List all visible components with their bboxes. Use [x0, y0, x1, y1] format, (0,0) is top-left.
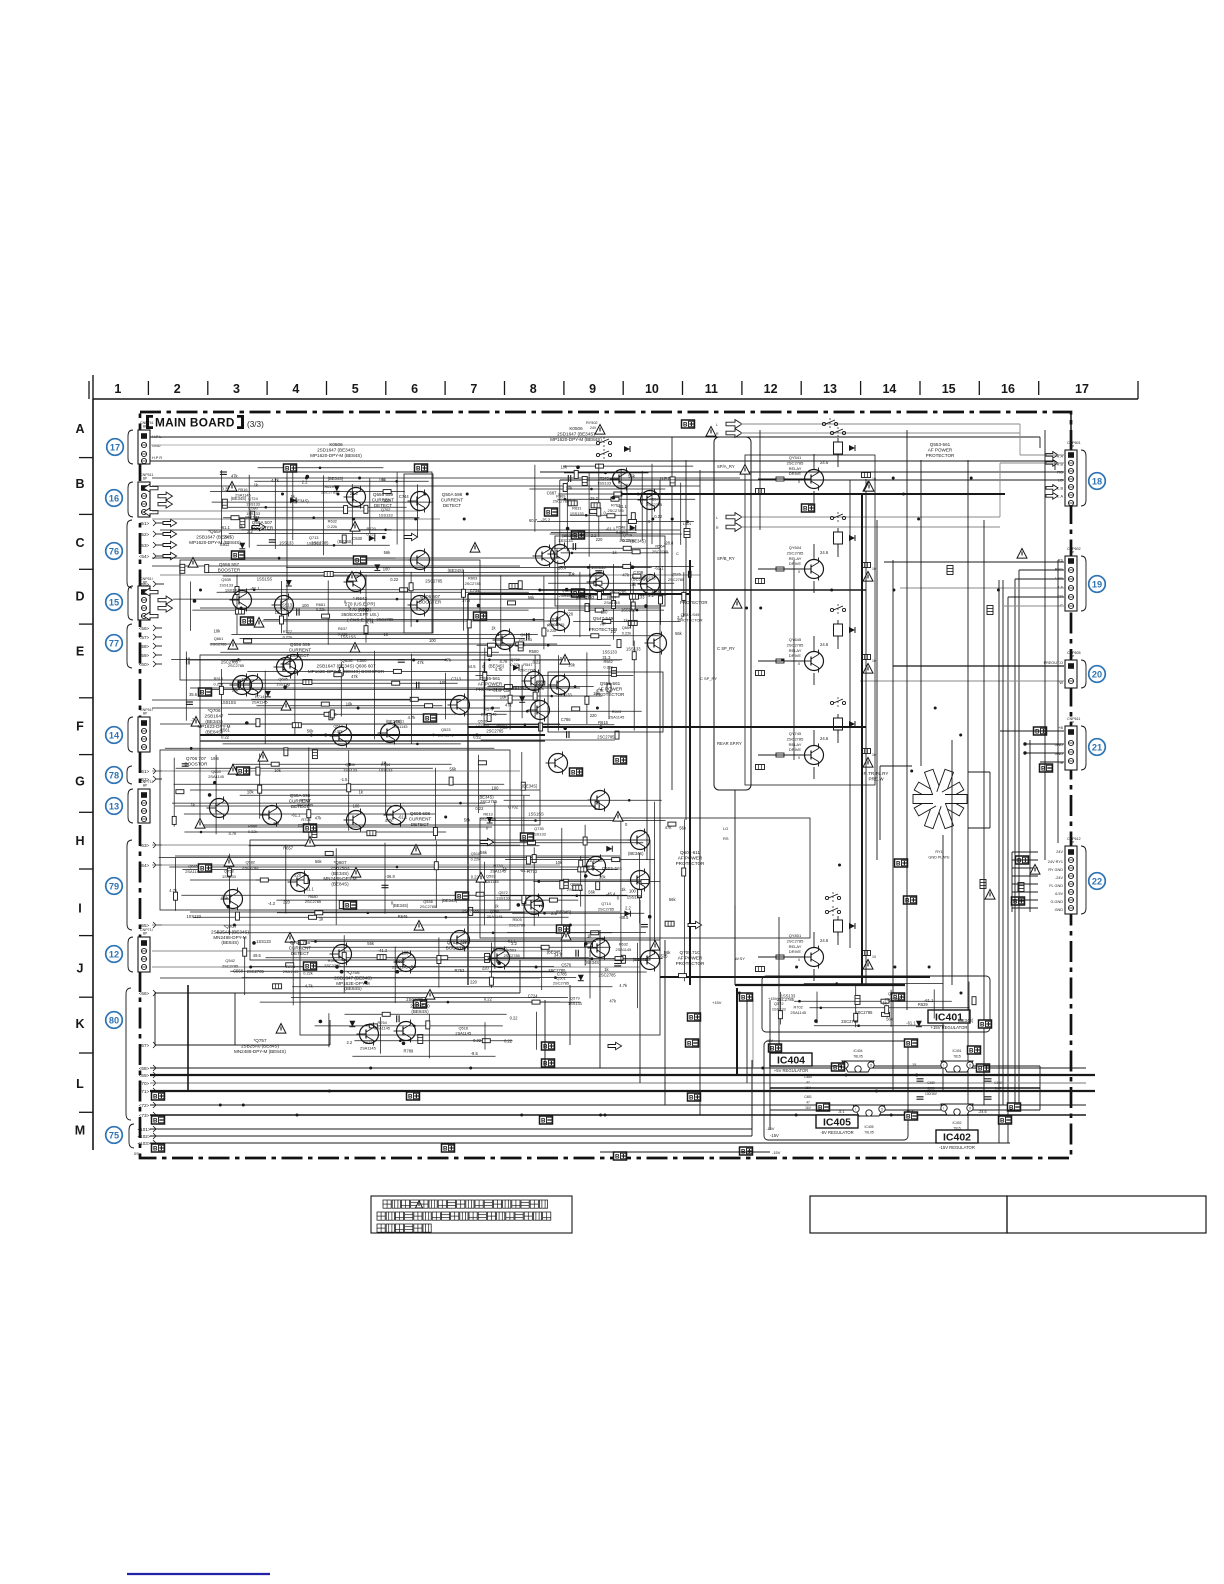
svg-text:24.6: 24.6 [820, 460, 829, 465]
svg-text:C530: C530 [352, 536, 363, 541]
resistor [489, 977, 493, 985]
part label R548 [616, 524, 626, 534]
resistor [623, 546, 631, 550]
arrow into CNP601 [1046, 460, 1058, 467]
section outline box [745, 455, 875, 785]
brace [1081, 846, 1086, 914]
edge pin <58> [139, 643, 162, 649]
resistor [393, 669, 401, 673]
svg-text:<71>: <71> [139, 1089, 150, 1094]
svg-text:56k: 56k [528, 595, 536, 600]
svg-text:MP162E-DPY-M (BE84S) BOOSTOR: MP162E-DPY-M (BE84S) BOOSTOR [308, 669, 385, 674]
svg-text:Q758: Q758 [224, 869, 234, 874]
section outline box [160, 750, 510, 910]
svg-text:B: B [345, 903, 350, 910]
wire mesh block [173, 564, 652, 649]
resistor [273, 984, 282, 989]
svg-text:<57>: <57> [139, 635, 150, 640]
transistor Q605 [548, 543, 570, 566]
capacitor [397, 1015, 399, 1022]
B- marker [540, 1116, 553, 1125]
B+ marker [284, 464, 297, 473]
svg-text:PROTECTOR: PROTECTOR [589, 627, 618, 632]
svg-text:B: B [906, 1041, 911, 1048]
svg-text:2SC2785: 2SC2785 [305, 899, 321, 904]
wire GND run [150, 444, 600, 446]
edge pin <103> [137, 1140, 156, 1146]
resistor [461, 589, 465, 597]
junction [795, 966, 798, 969]
brace [127, 624, 132, 668]
diode [849, 445, 855, 451]
resistor [614, 492, 622, 496]
svg-text:DETECT: DETECT [291, 653, 310, 658]
svg-text:-4.3: -4.3 [268, 901, 276, 906]
resistor [433, 828, 437, 836]
edge pin <72> [139, 1102, 156, 1108]
svg-text:RELAY: RELAY [789, 944, 802, 949]
svg-text:LG: LG [723, 826, 728, 831]
svg-text:7: 7 [470, 382, 477, 396]
svg-text:BP: BP [143, 712, 147, 716]
part label Q539 [219, 577, 233, 587]
grid row tick [79, 1111, 93, 1113]
junction [414, 518, 417, 521]
svg-text:AF POWER: AF POWER [678, 955, 703, 960]
brace [128, 586, 133, 620]
transistor Q613 [546, 752, 568, 775]
svg-text:C490: C490 [994, 1081, 1002, 1085]
part label R545 [597, 475, 611, 485]
resistor [482, 1039, 490, 1043]
svg-text:Q661: Q661 [214, 636, 224, 641]
B- marker [232, 551, 245, 560]
warning triangle [863, 572, 873, 582]
svg-text:MP1620-DPY-M (BE84S): MP1620-DPY-M (BE84S) [189, 540, 241, 545]
page-link ref 15 [106, 594, 123, 611]
B- marker [354, 556, 367, 565]
svg-text:PROTECTOR: PROTECTOR [926, 453, 955, 458]
svg-text:8: 8 [530, 382, 537, 396]
resistor [518, 581, 522, 589]
svg-text:Q555-561: Q555-561 [600, 681, 621, 686]
bus wire <103> [150, 1142, 1010, 1144]
resistor [568, 501, 577, 506]
svg-text:(BE34S): (BE34S) [337, 539, 353, 544]
transistor Q710 [488, 947, 510, 970]
svg-text:R771: R771 [286, 964, 295, 969]
svg-text:R.TR.FL.RY: R.TR.FL.RY [864, 771, 889, 776]
part label *Q55A [189, 529, 241, 545]
svg-text:IC402: IC402 [943, 1132, 971, 1144]
part label Q618 [559, 588, 575, 598]
resistor [339, 667, 343, 675]
part label Q669 [622, 625, 632, 635]
junction [875, 1090, 878, 1093]
svg-text:QY745: QY745 [789, 731, 802, 736]
svg-text:100: 100 [601, 609, 609, 614]
part label R611 [392, 719, 408, 729]
svg-text:-25.2: -25.2 [541, 517, 551, 522]
svg-text:0.22k: 0.22k [283, 634, 293, 639]
svg-text:CURRENT: CURRENT [441, 497, 464, 502]
transistor Q610 [548, 674, 570, 697]
arrow into CNP601 [1046, 452, 1058, 459]
part label *Q707 [211, 924, 250, 945]
svg-text:24.6: 24.6 [820, 938, 829, 943]
svg-text:0.22k: 0.22k [471, 857, 481, 862]
B+ marker [442, 1144, 455, 1153]
svg-text:47k: 47k [231, 473, 239, 478]
wire vertical [778, 917, 780, 1060]
warning triangle [1017, 549, 1027, 559]
svg-text:7815: 7815 [953, 1054, 961, 1058]
resistor [611, 667, 616, 676]
wire conn22 pin lead [1012, 875, 1038, 877]
part label R598 [324, 958, 340, 968]
resistor [537, 681, 545, 685]
transistor Q611 [522, 670, 544, 693]
svg-text:270 (US.E.PR): 270 (US.E.PR) [345, 601, 376, 606]
svg-text:2SA1145: 2SA1145 [559, 593, 575, 598]
svg-text:2SB1647: 2SB1647 [205, 713, 224, 718]
svg-text:1SS1SS: 1SS1SS [528, 812, 544, 817]
resistor [231, 516, 239, 520]
transistor Q609 [645, 632, 667, 655]
wire CO lead [1008, 596, 1064, 598]
svg-text:GND PLATE: GND PLATE [928, 855, 950, 859]
svg-text:10k: 10k [500, 695, 508, 700]
wire conn22 pin lead [1012, 859, 1038, 861]
voltage regulator IC402 [941, 1104, 973, 1115]
edge pin <101> [137, 1126, 156, 1132]
part label Q556 557 [218, 562, 241, 572]
svg-text:B: B [905, 898, 910, 905]
svg-text:RG: RG [1057, 471, 1063, 475]
warning triangle [864, 482, 874, 492]
voltage regulator IC405 [853, 1105, 885, 1116]
svg-text:0.22k: 0.22k [303, 970, 313, 975]
B+ marker [542, 1059, 555, 1068]
relay coil RY541 [834, 438, 843, 458]
junction [997, 589, 1000, 592]
relay contact S7 [825, 906, 840, 918]
junction [928, 966, 931, 969]
resistor [597, 592, 601, 600]
junction [845, 1074, 848, 1077]
capacitor [220, 472, 227, 474]
resistor [682, 868, 686, 876]
capacitor [917, 1079, 924, 1081]
junction [604, 1114, 607, 1117]
svg-text:100: 100 [629, 889, 637, 894]
part label Q661 [210, 636, 226, 646]
svg-text:B: B [200, 690, 205, 697]
edge pin <63> [139, 842, 162, 848]
section outline box [300, 940, 660, 1035]
B+ marker [904, 896, 917, 905]
svg-text:B: B [153, 1118, 158, 1125]
transistor Q602 [394, 951, 416, 974]
svg-text:Q553-561: Q553-561 [930, 442, 951, 447]
svg-text:-41.2: -41.2 [378, 948, 388, 953]
svg-text:Q706 707: Q706 707 [186, 756, 207, 761]
svg-text:<68>: <68> [139, 1066, 150, 1071]
svg-text:W.SY: W.SY [735, 956, 745, 961]
svg-text:R681: R681 [316, 602, 325, 607]
grid row tick [79, 697, 93, 699]
svg-text:2SA1145: 2SA1145 [609, 714, 625, 719]
edge pin <62> [139, 776, 162, 782]
transistor RY801 [802, 946, 824, 969]
part label RY1 [928, 850, 950, 859]
svg-text:R611: R611 [395, 719, 404, 724]
part label C490 [994, 1081, 1002, 1090]
svg-text:R753: R753 [455, 968, 466, 973]
part label R547 [520, 662, 536, 672]
transistor Q607 [638, 573, 660, 596]
wire vertical drop [639, 900, 641, 1083]
svg-text:B: B [355, 558, 360, 565]
wire bus horizontal [152, 557, 560, 559]
svg-text:R720: R720 [367, 526, 377, 531]
svg-text:B: B [200, 866, 205, 873]
part label Q547-549 [589, 616, 618, 632]
svg-text:15: 15 [942, 382, 956, 396]
page-link ref 19 [1089, 576, 1106, 593]
svg-text:B: B [1009, 1105, 1014, 1112]
svg-text:AF POWER: AF POWER [678, 855, 703, 860]
part label Q50A 598 [441, 492, 464, 508]
part label R563 [504, 948, 520, 958]
part label C481 [804, 1095, 812, 1110]
svg-text:56k: 56k [679, 825, 687, 830]
B+ marker [832, 1063, 845, 1072]
svg-text:LS: LS [1058, 586, 1063, 590]
svg-text:R603: R603 [612, 709, 621, 714]
svg-text:3: 3 [233, 382, 240, 396]
capacitor [540, 900, 542, 907]
svg-text:R563: R563 [507, 948, 516, 953]
bus wire vertical [861, 494, 863, 985]
relay contact RY502b [596, 449, 611, 461]
capacitor [568, 475, 570, 482]
bus wire <73> [150, 1114, 1086, 1116]
relay contact S5 [830, 697, 845, 709]
LS01 [684, 529, 690, 538]
bus wire <101> [150, 1128, 752, 1130]
svg-text:(3/3): (3/3) [247, 420, 264, 429]
svg-text:R734: R734 [381, 762, 391, 767]
resistor [756, 765, 765, 770]
svg-text:4.7k: 4.7k [229, 831, 238, 836]
svg-text:G: G [75, 775, 85, 789]
wire to CNP601 [741, 516, 1000, 518]
resistor [572, 707, 580, 711]
signal arrow [163, 541, 177, 548]
junction [491, 707, 494, 710]
svg-text:Q547-549: Q547-549 [593, 616, 614, 621]
svg-text:B: B [305, 826, 310, 833]
part label R764 [374, 1020, 390, 1030]
resistor [303, 680, 312, 685]
svg-text:*Q707: *Q707 [223, 924, 236, 929]
capacitor [917, 1097, 924, 1099]
capacitor [985, 1097, 992, 1099]
svg-text:MN2488-DPY-M (BE84S): MN2488-DPY-M (BE84S) [234, 1049, 286, 1054]
svg-text:Q724: Q724 [248, 496, 258, 501]
capacitor [985, 1079, 992, 1081]
svg-text:DRIVE: DRIVE [789, 747, 802, 752]
wire bus horizontal [190, 687, 580, 689]
B+ marker [542, 1042, 555, 1051]
warning triangle [415, 1201, 422, 1208]
board title MAIN BOARD (3/3) [146, 415, 264, 430]
svg-text:2SC2785: 2SC2785 [509, 922, 525, 927]
wire heavy rail vertical x690 [689, 560, 691, 985]
resistor [364, 626, 368, 634]
svg-text:Q645: Q645 [188, 864, 198, 869]
warning triangle [425, 990, 435, 1000]
svg-text:4.7k: 4.7k [619, 983, 628, 988]
resistor [534, 901, 542, 905]
svg-text:B: B [75, 477, 84, 491]
svg-text:-61.1: -61.1 [520, 868, 530, 873]
resistor [434, 862, 438, 870]
junction [369, 1067, 372, 1070]
resistor [532, 855, 536, 863]
svg-text:R632: R632 [328, 519, 337, 524]
diode [578, 975, 584, 981]
svg-text:-15V: -15V [772, 1150, 781, 1155]
wire vertical [699, 470, 701, 900]
resistor [629, 594, 638, 599]
capacitor [573, 543, 575, 550]
warning triangle [227, 482, 237, 492]
svg-text:12: 12 [764, 382, 778, 396]
part label Q645 [185, 864, 201, 874]
signal arrow [144, 484, 158, 492]
part label R689 [392, 959, 408, 969]
svg-text:Q518: Q518 [471, 851, 481, 856]
resistor [591, 634, 599, 638]
value labels [233, 939, 649, 1004]
brace [128, 717, 133, 752]
wire conn22 pin lead [1012, 883, 1038, 885]
svg-text:0: 0 [798, 958, 800, 962]
resistor [756, 489, 765, 494]
warning triangle [863, 482, 873, 492]
resistor [533, 692, 537, 700]
svg-text:56k: 56k [315, 859, 323, 864]
svg-text:<69>: <69> [139, 1073, 150, 1078]
resistor [597, 508, 601, 516]
svg-text:2SB25A0 (BE34S): 2SB25A0 (BE34S) [211, 929, 250, 934]
resistor [882, 1012, 890, 1016]
svg-text:B: B [896, 861, 901, 868]
svg-text:10k: 10k [504, 688, 512, 693]
value labels [482, 647, 641, 740]
resistor [668, 822, 676, 826]
svg-text:0: 0 [798, 662, 800, 666]
junction [242, 1104, 245, 1107]
relay drive cluster RY801 [756, 916, 876, 981]
B- marker [152, 1116, 165, 1125]
warning triangle [276, 1024, 286, 1034]
section outline box [180, 560, 480, 680]
svg-text:B: B [615, 758, 620, 765]
bus wire <68> [150, 1067, 1086, 1069]
svg-text:<52>: <52> [139, 532, 150, 537]
B+ marker [304, 962, 317, 971]
svg-text:AF POWER: AF POWER [928, 447, 953, 452]
capacitor [614, 964, 621, 966]
svg-text:*Q756: *Q756 [346, 970, 359, 975]
svg-text:R603: R603 [468, 576, 477, 581]
part label Q714 [598, 901, 614, 911]
resistor [235, 587, 239, 595]
svg-text:0.22k: 0.22k [316, 607, 326, 612]
svg-text:Q593: Q593 [231, 658, 241, 663]
part label Q724 [246, 496, 260, 506]
resistor [526, 856, 530, 864]
B+ marker [682, 420, 695, 429]
resistor [585, 604, 589, 612]
resistor [440, 956, 448, 960]
resistor [347, 784, 351, 792]
part label R702 [790, 1005, 806, 1015]
svg-text:K: K [75, 1017, 84, 1031]
page-link ref 80 [106, 1012, 123, 1029]
warning triangle [1030, 865, 1040, 875]
resistor [325, 851, 333, 855]
capacitor [186, 702, 193, 704]
junction [892, 589, 895, 592]
part label Q555-561 [476, 676, 505, 692]
brace [128, 482, 133, 517]
svg-text:2SA1145: 2SA1145 [252, 700, 268, 705]
svg-text:I: I [943, 1064, 944, 1068]
svg-text:+15V: +15V [712, 1000, 722, 1005]
svg-text:A: A [75, 422, 84, 436]
svg-text:C SP_RY: C SP_RY [700, 676, 717, 681]
top ruler right end tick [1137, 381, 1139, 399]
svg-text:B: B [906, 1114, 911, 1121]
svg-text:IC402: IC402 [952, 1121, 961, 1125]
signal arrow [144, 508, 158, 516]
wire mesh block [315, 1012, 537, 1058]
svg-text:2SC2785: 2SC2785 [787, 938, 804, 943]
resistor [621, 955, 625, 963]
svg-text:C786: C786 [561, 717, 572, 722]
resistor [862, 563, 871, 568]
svg-text:C724: C724 [528, 993, 539, 998]
warning triangle [985, 890, 995, 900]
resistor [595, 801, 599, 809]
svg-text:C576: C576 [561, 963, 572, 968]
part label QY745 [787, 731, 804, 752]
value labels [491, 812, 687, 978]
arrow to CNP601 [726, 429, 742, 438]
resistor [612, 601, 616, 609]
svg-text:56k: 56k [307, 729, 315, 734]
junction [324, 734, 327, 737]
wire vertical drop [699, 790, 701, 1115]
svg-text:C489: C489 [927, 1081, 935, 1085]
svg-text:-5V REGULATOR: -5V REGULATOR [820, 1130, 853, 1135]
wire bus horizontal [152, 770, 520, 772]
svg-text:220: 220 [470, 980, 478, 985]
